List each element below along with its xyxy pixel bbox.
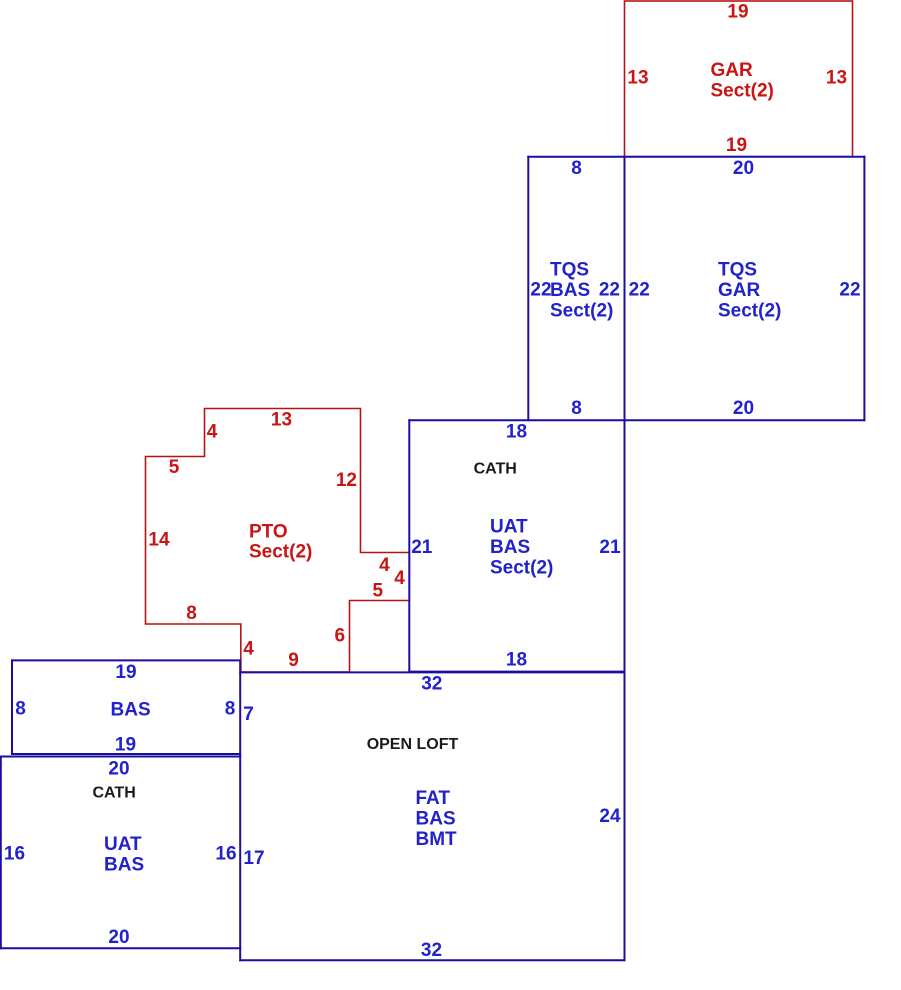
wire left edge FAT / right edge BAS+UAT BAS column — [239, 660, 241, 960]
blue outlines: TQS BAS, TQS GAR, UAT BAS Sect(2), BAS, UAT BAS, FAT BAS BMT — [1, 157, 865, 961]
svg-text:19: 19 — [727, 2, 748, 23]
svg-text:BAS: BAS — [104, 854, 144, 875]
svg-text:12: 12 — [336, 470, 357, 491]
svg-text:20: 20 — [108, 759, 129, 780]
wire bottom edge FAT BAS BMT — [240, 959, 624, 961]
svg-text:17: 17 — [243, 848, 264, 869]
svg-text:OPEN LOFT: OPEN LOFT — [367, 736, 459, 753]
wire BAS rect left — [11, 660, 13, 754]
svg-text:24: 24 — [599, 806, 621, 827]
svg-text:BAS: BAS — [550, 280, 590, 301]
svg-text:5: 5 — [373, 580, 384, 601]
svg-text:14: 14 — [148, 530, 170, 551]
svg-text:13: 13 — [271, 410, 292, 431]
wire left edge UAT BAS Sect(2) — [408, 420, 410, 671]
svg-text:BAS: BAS — [490, 537, 530, 558]
svg-text:FAT: FAT — [416, 788, 451, 809]
svg-text:Sect(2): Sect(2) — [490, 558, 553, 579]
svg-text:Sect(2): Sect(2) — [718, 300, 781, 321]
svg-text:Sect(2): Sect(2) — [711, 80, 774, 101]
svg-text:Sect(2): Sect(2) — [249, 542, 312, 563]
svg-text:4: 4 — [379, 555, 390, 576]
svg-text:22: 22 — [839, 280, 860, 301]
svg-text:19: 19 — [115, 735, 136, 756]
svg-text:19: 19 — [726, 135, 747, 156]
svg-text:20: 20 — [733, 158, 754, 179]
svg-text:20: 20 — [733, 398, 754, 419]
wire left edge TQS BAS — [527, 157, 529, 421]
svg-text:16: 16 — [4, 844, 25, 865]
area PTO Sect(2) outline (red polygon, middle left) — [146, 409, 410, 673]
wire right edge TQS GAR — [863, 157, 865, 421]
svg-text:20: 20 — [108, 927, 129, 948]
svg-text:8: 8 — [225, 699, 236, 720]
wire bottom edge UAT BAS Sect(2) — [409, 671, 624, 673]
svg-text:GAR: GAR — [711, 60, 754, 81]
svg-text:BAS: BAS — [111, 700, 151, 721]
svg-text:21: 21 — [411, 537, 433, 558]
svg-text:13: 13 — [826, 68, 847, 89]
svg-text:8: 8 — [571, 398, 582, 419]
svg-text:22: 22 — [599, 280, 620, 301]
svg-text:8: 8 — [15, 699, 26, 720]
wire BAS rect top — [12, 659, 240, 661]
svg-text:BAS: BAS — [416, 808, 456, 829]
wire BAS rect bottom — [12, 753, 240, 755]
svg-text:18: 18 — [506, 650, 527, 671]
wire UAT BAS rect top — [1, 756, 240, 758]
svg-text:18: 18 — [506, 421, 527, 442]
wire UAT BAS rect left — [0, 757, 2, 949]
svg-text:Sect(2): Sect(2) — [550, 300, 613, 321]
svg-text:UAT: UAT — [104, 834, 142, 855]
svg-text:9: 9 — [288, 650, 299, 671]
svg-text:PTO: PTO — [249, 521, 288, 542]
svg-text:32: 32 — [421, 940, 442, 961]
wire top edge of TQS rects — [528, 156, 864, 158]
svg-text:8: 8 — [186, 603, 197, 624]
svg-text:4: 4 — [243, 639, 254, 660]
svg-text:19: 19 — [115, 662, 136, 683]
svg-text:4: 4 — [207, 422, 218, 443]
svg-text:21: 21 — [599, 537, 621, 558]
svg-text:32: 32 — [421, 674, 442, 695]
svg-text:BMT: BMT — [416, 829, 458, 850]
wire UAT BAS rect bottom — [1, 947, 240, 949]
area GAR Sect(2) outline (red rectangle, top right) — [625, 1, 853, 157]
svg-text:4: 4 — [394, 568, 405, 589]
svg-text:22: 22 — [530, 280, 551, 301]
svg-text:13: 13 — [627, 68, 648, 89]
svg-text:16: 16 — [215, 844, 236, 865]
svg-text:CATH: CATH — [93, 785, 136, 802]
svg-text:GAR: GAR — [718, 280, 761, 301]
svg-text:8: 8 — [571, 158, 582, 179]
wire divider TQS BAS / TQS GAR continuing as right edge of UAT + FAT — [624, 157, 626, 961]
svg-text:TQS: TQS — [550, 260, 589, 281]
wire top edge FAT BAS BMT — [240, 671, 624, 673]
wire bottom edge of TQS rects / top of UAT BAS Sect(2) — [409, 419, 864, 421]
svg-text:CATH: CATH — [474, 461, 517, 478]
svg-text:22: 22 — [629, 280, 650, 301]
svg-text:5: 5 — [169, 457, 180, 478]
svg-text:6: 6 — [335, 625, 346, 646]
svg-text:UAT: UAT — [490, 517, 528, 538]
svg-text:7: 7 — [243, 704, 254, 725]
svg-text:TQS: TQS — [718, 260, 757, 281]
